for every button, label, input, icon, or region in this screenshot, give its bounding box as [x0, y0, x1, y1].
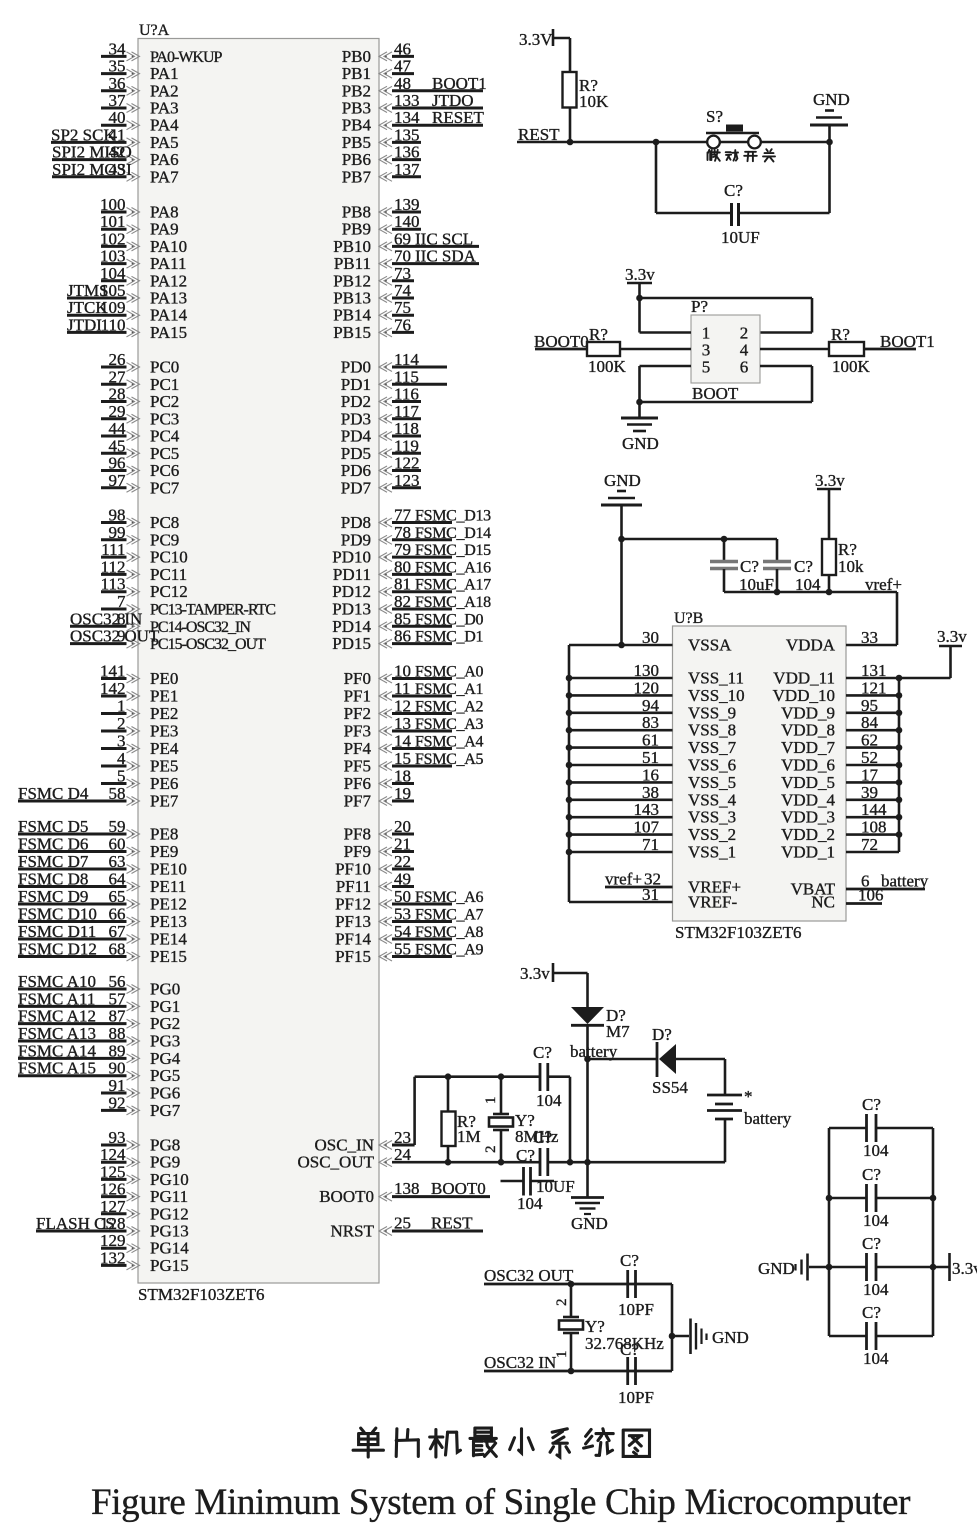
svg-text:PB7: PB7 — [342, 167, 372, 186]
svg-text:FSMC_A5: FSMC_A5 — [415, 751, 483, 768]
U?A pin 25 NRST / net REST — [331, 1214, 483, 1241]
wire R? to BOOT1 — [864, 348, 916, 351]
svg-text:58: 58 — [109, 784, 126, 803]
U?A pin 102 PA10 (left) — [100, 229, 187, 256]
svg-text:BOOT1: BOOT1 — [432, 74, 487, 93]
svg-text:VDD_4: VDD_4 — [781, 790, 835, 809]
svg-text:PF13: PF13 — [335, 912, 371, 931]
svg-text:VDD_2: VDD_2 — [781, 825, 835, 844]
svg-text:FSMC_A8: FSMC_A8 — [415, 924, 483, 941]
svg-text:70: 70 — [394, 247, 411, 266]
U?B pin 83 VSS_8 — [569, 713, 736, 740]
svg-text:SP2 SCK: SP2 SCK — [51, 125, 116, 144]
svg-text:45: 45 — [109, 436, 126, 455]
junction bank left — [826, 1264, 833, 1271]
svg-text:63: 63 — [109, 852, 126, 871]
svg-text:72: 72 — [861, 835, 878, 854]
svg-text:PD2: PD2 — [341, 392, 371, 411]
svg-text:Figure Minimum System of Singl: Figure Minimum System of Single Chip Mic… — [91, 1482, 910, 1523]
U?A pin 44 PC4 (left) — [101, 419, 180, 446]
svg-text:PE14: PE14 — [150, 930, 187, 949]
svg-text:C?: C? — [862, 1303, 881, 1322]
svg-text:135: 135 — [394, 125, 420, 144]
svg-text:136: 136 — [394, 143, 420, 162]
U?B pin 17 VDD_5 — [781, 765, 899, 792]
svg-text:OSC32 OUT: OSC32 OUT — [70, 627, 160, 646]
svg-text:65: 65 — [109, 887, 126, 906]
svg-text:PD11: PD11 — [333, 565, 371, 584]
resistor R? 100K (BOOT1) — [829, 325, 871, 376]
svg-text:96: 96 — [109, 454, 126, 473]
svg-text:3.3v: 3.3v — [952, 1259, 977, 1278]
svg-text:130: 130 — [634, 661, 660, 680]
wire cap branch left — [655, 142, 658, 213]
svg-text:PC2: PC2 — [150, 392, 179, 411]
svg-text:100: 100 — [100, 195, 126, 214]
svg-text:PG6: PG6 — [150, 1084, 180, 1103]
junction crystal top — [498, 1073, 505, 1080]
power symbol 3.3v (osc/diode) — [520, 963, 588, 983]
wire OSC32_OUT rail — [484, 1283, 672, 1286]
wire GND down to VSSA row — [620, 539, 623, 645]
svg-text:U?A: U?A — [139, 22, 170, 39]
svg-text:144: 144 — [861, 800, 887, 819]
U?B pin 72 VDD_1 — [781, 835, 899, 862]
U?A pin 45 PC5 (left) — [101, 436, 179, 463]
svg-text:PG14: PG14 — [150, 1239, 189, 1258]
junction VSS bus — [566, 814, 573, 821]
svg-text:15: 15 — [394, 749, 411, 768]
U?A pin 125 PG10 (left) — [100, 1162, 189, 1189]
svg-text:134: 134 — [394, 108, 420, 127]
junction bank left — [826, 1195, 833, 1202]
svg-text:111: 111 — [101, 540, 125, 559]
U?A pin 57 PG1 (left) — [18, 989, 180, 1016]
junction VSS bus — [566, 831, 573, 838]
U?A pin 64 PE11 (left) — [18, 870, 186, 897]
svg-text:PD9: PD9 — [341, 530, 371, 549]
svg-text:62: 62 — [861, 731, 878, 750]
svg-text:PB4: PB4 — [342, 116, 372, 135]
svg-text:FSMC A13: FSMC A13 — [18, 1024, 96, 1043]
svg-text:139: 139 — [394, 195, 420, 214]
svg-text:PG3: PG3 — [150, 1032, 180, 1051]
capacitor C? 104 (decoupling) — [763, 539, 821, 594]
svg-text:C?: C? — [724, 181, 743, 200]
svg-text:FSMC D9: FSMC D9 — [18, 887, 88, 906]
svg-text:PE8: PE8 — [150, 825, 178, 844]
svg-text:33: 33 — [861, 628, 878, 647]
svg-text:PA3: PA3 — [150, 99, 179, 118]
svg-text:69: 69 — [394, 229, 411, 248]
svg-text:*: * — [744, 1087, 753, 1106]
svg-text:PE0: PE0 — [150, 669, 178, 688]
U?A pin 104 PA12 (left) — [100, 264, 187, 291]
header P? BOOT jumper block — [691, 297, 760, 403]
svg-text:PD12: PD12 — [332, 582, 371, 601]
svg-text:PD8: PD8 — [341, 513, 371, 532]
U?B pin 38 VSS_4 — [569, 783, 737, 810]
junction VSS bus — [566, 779, 573, 786]
ground GND (BOOT header) — [621, 402, 659, 453]
svg-text:3: 3 — [117, 732, 126, 751]
svg-text:20: 20 — [394, 817, 411, 836]
svg-text:10UF: 10UF — [721, 228, 760, 247]
svg-text:142: 142 — [100, 679, 126, 698]
svg-text:PA13: PA13 — [150, 289, 187, 308]
wire R? to P? pin3 — [620, 348, 691, 351]
svg-text:C?: C? — [862, 1095, 881, 1114]
svg-text:VSS_1: VSS_1 — [688, 843, 736, 862]
U?A pin 127 PG12 (left) — [100, 1197, 189, 1224]
svg-text:PC6: PC6 — [150, 461, 179, 480]
svg-text:PC8: PC8 — [150, 513, 179, 532]
svg-text:PC11: PC11 — [150, 565, 187, 584]
svg-text:61: 61 — [642, 731, 659, 750]
svg-text:PE7: PE7 — [150, 792, 179, 811]
svg-text:1: 1 — [554, 1351, 570, 1359]
svg-text:104: 104 — [863, 1280, 889, 1299]
wire BOOT0 to R? — [535, 348, 587, 351]
svg-text:PG11: PG11 — [150, 1187, 188, 1206]
svg-text:80: 80 — [394, 557, 411, 576]
U?A pin 40 PA4 (left) — [101, 108, 179, 135]
svg-text:PC15-OSC32_OUT: PC15-OSC32_OUT — [150, 636, 266, 653]
svg-text:10k: 10k — [838, 557, 864, 576]
svg-text:PD14: PD14 — [332, 617, 371, 636]
U?A pin 36 PA2 (left) — [101, 74, 179, 101]
U?B pin 143 VSS_3 — [569, 800, 736, 827]
svg-text:PA11: PA11 — [150, 254, 187, 273]
svg-text:29: 29 — [109, 402, 126, 421]
U?B pin 106 NC — [811, 886, 883, 912]
U?A pin 88 PG3 (left) — [18, 1024, 180, 1051]
junction VDD bus — [896, 797, 903, 804]
U?A pin 68 PE15 (left) — [18, 940, 187, 967]
svg-text:4: 4 — [117, 749, 126, 768]
U?A pin 103 PA11 (left) — [100, 247, 187, 274]
U?A pin 3 PE4 (left) — [101, 732, 179, 759]
svg-text:10K: 10K — [579, 92, 609, 111]
resistor R? 1M (osc feedback) — [442, 1077, 481, 1163]
svg-text:PD15: PD15 — [332, 634, 371, 653]
junction node pin5/pin6/GND — [636, 399, 643, 406]
ground GND (osc32, sideways) — [672, 1319, 749, 1355]
svg-text:1: 1 — [483, 1097, 499, 1105]
svg-text:113: 113 — [101, 575, 126, 594]
svg-text:10PF: 10PF — [618, 1300, 654, 1319]
U?A pin 5 PE6 (left) — [101, 767, 178, 794]
svg-text:PB14: PB14 — [333, 306, 371, 325]
svg-text:78: 78 — [394, 523, 411, 542]
svg-text:PF6: PF6 — [344, 774, 371, 793]
U?A pin 43 PA7 (left) — [52, 160, 179, 187]
wire R? bottom — [828, 575, 831, 592]
svg-text:64: 64 — [109, 870, 127, 889]
svg-text:40: 40 — [109, 108, 126, 127]
wire bottom cap rail / vref+ — [724, 591, 897, 594]
svg-text:BOOT1: BOOT1 — [880, 332, 935, 351]
U?B pin 16 VSS_5 — [569, 765, 736, 792]
svg-text:PA12: PA12 — [150, 271, 187, 290]
junction node VSSA/GND — [618, 642, 625, 649]
label 微动开关 (micro switch) — [708, 149, 776, 161]
svg-text:FSMC A10: FSMC A10 — [18, 972, 96, 991]
svg-text:86: 86 — [394, 627, 411, 646]
svg-text:FSMC_A9: FSMC_A9 — [415, 942, 483, 959]
svg-text:56: 56 — [109, 972, 126, 991]
svg-text:VSS_7: VSS_7 — [688, 738, 737, 757]
U?B pin 52 VDD_6 — [781, 748, 899, 775]
svg-text:127: 127 — [100, 1197, 126, 1216]
U?A pin 105 PA13 (left) — [67, 281, 187, 308]
U?A pin 24 OSC_OUT — [297, 1145, 411, 1172]
svg-text:104: 104 — [863, 1141, 889, 1160]
svg-text:NRST: NRST — [331, 1222, 375, 1241]
junction R?1M top — [445, 1073, 452, 1080]
U?A pin 142 PE1 (left) — [100, 679, 178, 706]
U?A pin 132 PG15 (left) — [100, 1248, 189, 1275]
svg-text:C?: C? — [862, 1234, 881, 1253]
wire 3.3v to P? pin2 — [640, 297, 813, 300]
svg-text:PC10: PC10 — [150, 548, 188, 567]
svg-text:114: 114 — [394, 350, 419, 369]
svg-text:2: 2 — [483, 1146, 499, 1154]
U?B pin 61 VSS_7 — [569, 731, 737, 758]
svg-text:106: 106 — [858, 886, 884, 905]
svg-text:PF11: PF11 — [336, 877, 371, 896]
svg-text:104: 104 — [100, 264, 126, 283]
svg-text:102: 102 — [100, 229, 126, 248]
svg-text:C?: C? — [794, 557, 813, 576]
svg-text:120: 120 — [634, 678, 660, 697]
ground GND (cap bank, sideways) — [758, 1254, 829, 1281]
svg-text:92: 92 — [109, 1093, 126, 1112]
svg-text:PF5: PF5 — [344, 757, 371, 776]
U?A pin 91 PG6 (left) — [101, 1076, 180, 1103]
svg-text:60: 60 — [109, 835, 126, 854]
svg-text:PE6: PE6 — [150, 774, 178, 793]
svg-text:PB5: PB5 — [342, 133, 371, 152]
svg-text:PF10: PF10 — [335, 860, 371, 879]
svg-text:C?: C? — [740, 557, 759, 576]
svg-text:137: 137 — [394, 160, 420, 179]
svg-text:IIC SDA: IIC SDA — [415, 247, 477, 266]
svg-text:PF14: PF14 — [335, 930, 371, 949]
svg-text:PG9: PG9 — [150, 1153, 180, 1172]
svg-text:PD6: PD6 — [341, 461, 371, 480]
svg-text:VSS_3: VSS_3 — [688, 808, 736, 827]
svg-text:PB6: PB6 — [342, 150, 371, 169]
svg-text:PA9: PA9 — [150, 220, 179, 239]
U?A pin 110 PA15 (left) — [67, 315, 187, 342]
svg-text:BOOT0: BOOT0 — [431, 1179, 486, 1198]
power symbol 3.3v (VDD bus) — [899, 627, 967, 678]
svg-text:PG15: PG15 — [150, 1256, 189, 1275]
svg-text:VDDA: VDDA — [786, 636, 836, 655]
svg-text:IIC SCL: IIC SCL — [415, 229, 473, 248]
wire battery to OSC_OUT rail — [724, 1119, 727, 1162]
junction VDD bus — [896, 727, 903, 734]
wire P? pin1 left — [640, 331, 692, 334]
svg-text:PB12: PB12 — [333, 271, 371, 290]
svg-text:PC3: PC3 — [150, 409, 179, 428]
svg-text:PB13: PB13 — [333, 289, 371, 308]
capacitor C? 10PF (bottom) — [618, 1340, 654, 1407]
svg-text:103: 103 — [100, 247, 126, 266]
svg-text:73: 73 — [394, 264, 411, 283]
svg-text:SPI2 MISO: SPI2 MISO — [52, 143, 132, 162]
svg-text:FSMC_A6: FSMC_A6 — [415, 889, 483, 906]
svg-text:25: 25 — [394, 1214, 411, 1233]
crystal Y? 32.768KHz — [554, 1284, 664, 1371]
svg-text:GND: GND — [758, 1259, 795, 1278]
svg-text:PG5: PG5 — [150, 1066, 180, 1085]
wire 3.3V to resistor R? — [569, 38, 572, 72]
junction bank right — [930, 1195, 937, 1202]
battery symbol — [707, 1087, 792, 1128]
junction node 3.3v/boot — [636, 295, 643, 302]
capacitor C? 10uF (decoupling) — [710, 539, 774, 594]
junction VDD bus — [896, 710, 903, 717]
U?A pin 87 PG2 (left) — [18, 1007, 180, 1034]
wire switch to GND node — [761, 141, 830, 143]
svg-text:C?: C? — [533, 1043, 552, 1062]
svg-text:108: 108 — [861, 818, 887, 837]
U?B pin 62 VDD_7 — [781, 731, 899, 758]
svg-text:VSS_4: VSS_4 — [688, 790, 737, 809]
junction crystal bottom — [498, 1159, 505, 1166]
switch S? contact circles (overlay) — [707, 136, 761, 149]
svg-text:R?: R? — [589, 325, 608, 344]
svg-text:59: 59 — [109, 817, 126, 836]
svg-text:PB8: PB8 — [342, 203, 371, 222]
junction GND stub osc32 — [669, 1333, 676, 1340]
svg-text:vref+: vref+ — [865, 575, 902, 594]
capacitor C? 10UF (reset) — [721, 181, 760, 247]
junction VDD bus — [896, 692, 903, 699]
svg-text:5: 5 — [117, 767, 126, 786]
svg-text:PC5: PC5 — [150, 444, 179, 463]
wire VSSA pin 30 to left bus — [569, 644, 673, 647]
svg-text:S?: S? — [706, 107, 723, 126]
svg-text:vref+: vref+ — [605, 870, 642, 889]
svg-text:FSMC_D1: FSMC_D1 — [415, 629, 483, 646]
U?A pin 26 PC0 (left) — [101, 350, 179, 377]
svg-text:16: 16 — [642, 765, 659, 784]
svg-text:D?: D? — [652, 1025, 672, 1044]
junction VDD bus — [896, 814, 903, 821]
junction node switch/GND — [826, 139, 833, 146]
svg-text:PD10: PD10 — [332, 548, 371, 567]
svg-text:18: 18 — [394, 767, 411, 786]
svg-text:FSMC D11: FSMC D11 — [18, 922, 96, 941]
svg-text:PF12: PF12 — [335, 895, 371, 914]
svg-text:3.3v: 3.3v — [520, 964, 550, 983]
left VSS bus wire — [568, 645, 571, 902]
capacitor C? 104 (bank 1) — [829, 1095, 933, 1160]
junction VDD bus — [896, 762, 903, 769]
svg-text:PG0: PG0 — [150, 980, 180, 999]
svg-text:PE5: PE5 — [150, 757, 178, 776]
svg-text:OSC32 IN: OSC32 IN — [70, 609, 142, 628]
svg-text:52: 52 — [861, 748, 878, 767]
svg-text:GND: GND — [571, 1214, 608, 1233]
svg-text:PE3: PE3 — [150, 722, 178, 741]
U?A pin 8 PC14-OSC32_IN (left) — [70, 609, 251, 636]
svg-text:VDD_5: VDD_5 — [781, 773, 835, 792]
svg-text:C?: C? — [533, 1128, 552, 1147]
svg-text:C?: C? — [516, 1146, 535, 1165]
svg-text:VSS_6: VSS_6 — [688, 756, 736, 775]
svg-text:101: 101 — [100, 212, 126, 231]
svg-text:JTCK: JTCK — [67, 298, 108, 317]
svg-text:118: 118 — [394, 419, 419, 438]
svg-text:104: 104 — [863, 1349, 889, 1368]
U?B pin 71 VSS_1 — [569, 835, 736, 862]
svg-text:94: 94 — [642, 696, 660, 715]
svg-text:122: 122 — [394, 454, 420, 473]
svg-text:3.3v: 3.3v — [937, 627, 967, 646]
junction crystal32 top — [568, 1281, 575, 1288]
svg-text:FSMC A11: FSMC A11 — [18, 989, 95, 1008]
svg-text:PB15: PB15 — [333, 323, 371, 342]
svg-text:PB1: PB1 — [342, 64, 371, 83]
svg-text:VSS_5: VSS_5 — [688, 773, 736, 792]
svg-text:PA14: PA14 — [150, 306, 188, 325]
junction VSS bus — [566, 744, 573, 751]
svg-text:RESET: RESET — [432, 108, 485, 127]
right VDD bus wire — [898, 678, 901, 852]
svg-text:PE11: PE11 — [150, 877, 186, 896]
svg-text:U?B: U?B — [674, 610, 703, 627]
U?A pin 29 PC3 (left) — [101, 402, 179, 429]
diode D? SS54 — [652, 1025, 688, 1097]
junction VSS bus — [566, 692, 573, 699]
U?A pin 101 PA9 (left) — [100, 212, 179, 239]
svg-text:OSC32 IN: OSC32 IN — [484, 1353, 556, 1372]
svg-text:PB9: PB9 — [342, 220, 371, 239]
svg-text:PG12: PG12 — [150, 1204, 189, 1223]
svg-text:STM32F103ZET6: STM32F103ZET6 — [138, 1285, 265, 1304]
junction VDD bus — [896, 744, 903, 751]
switch S? 微动开关 push button — [706, 107, 761, 148]
svg-text:17: 17 — [861, 765, 879, 784]
svg-text:30: 30 — [642, 628, 659, 647]
junction M7 branch bottom — [584, 1159, 591, 1166]
U?B pin 131 VDD_11 — [773, 661, 899, 688]
svg-text:PA10: PA10 — [150, 237, 187, 256]
svg-text:PD5: PD5 — [341, 444, 371, 463]
svg-text:77: 77 — [394, 506, 412, 525]
svg-text:22: 22 — [394, 852, 411, 871]
U?A pin 128 PG13 (left) — [36, 1214, 189, 1241]
power symbol 3.3v (BOOT header) — [625, 265, 655, 298]
svg-text:FSMC_A4: FSMC_A4 — [415, 734, 483, 751]
U?A pin 7 PC13-TAMPER-RTC (left) — [101, 592, 275, 619]
svg-text:PG4: PG4 — [150, 1049, 181, 1068]
U?A pin 92 PG7 (left) — [101, 1093, 181, 1120]
svg-text:FSMC A15: FSMC A15 — [18, 1059, 96, 1078]
U?A pin 41 PA5 (left) — [51, 125, 179, 152]
svg-text:95: 95 — [861, 696, 878, 715]
U?A pin 99 PC9 (left) — [101, 523, 179, 550]
svg-text:PC1: PC1 — [150, 375, 179, 394]
resistor R? 100K (BOOT0) — [587, 325, 627, 376]
svg-text:35: 35 — [109, 57, 126, 76]
svg-text:104: 104 — [536, 1091, 562, 1110]
svg-text:112: 112 — [101, 557, 126, 576]
